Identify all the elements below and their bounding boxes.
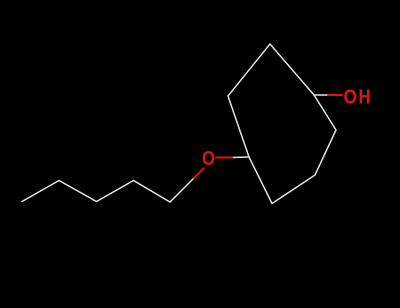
svg-text:O: O — [344, 87, 358, 109]
svg-text:H: H — [359, 87, 371, 109]
svg-text:O: O — [202, 148, 215, 170]
